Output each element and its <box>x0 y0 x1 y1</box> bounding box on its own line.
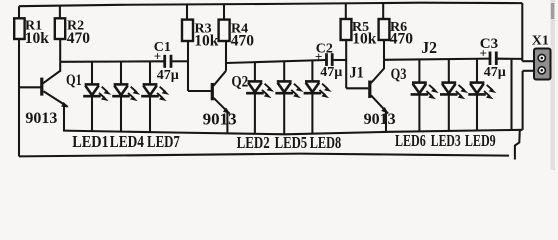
svg-text:LED9: LED9 <box>465 132 496 150</box>
svg-text:10k: 10k <box>25 30 50 47</box>
svg-text:Q3: Q3 <box>391 66 407 84</box>
svg-text:J1: J1 <box>349 65 363 82</box>
svg-text:470: 470 <box>231 32 255 49</box>
svg-text:Q1: Q1 <box>66 72 82 90</box>
svg-text:9013: 9013 <box>203 109 237 128</box>
svg-text:9013: 9013 <box>25 110 57 127</box>
svg-text:LED8: LED8 <box>310 134 341 152</box>
svg-text:470: 470 <box>390 30 414 47</box>
svg-text:LED4: LED4 <box>110 132 144 151</box>
svg-text:10k: 10k <box>352 30 377 47</box>
svg-text:9013: 9013 <box>364 111 396 128</box>
svg-text:LED1: LED1 <box>72 133 109 151</box>
svg-text:47µ: 47µ <box>157 68 179 83</box>
svg-text:47µ: 47µ <box>484 65 506 80</box>
svg-text:X1: X1 <box>532 33 549 48</box>
svg-text:Q2: Q2 <box>231 73 248 90</box>
svg-text:47µ: 47µ <box>320 65 342 80</box>
svg-text:10k: 10k <box>194 32 219 49</box>
svg-text:LED6: LED6 <box>395 132 426 150</box>
svg-text:+: + <box>154 48 161 63</box>
svg-text:LED5: LED5 <box>275 135 308 153</box>
svg-text:LED2: LED2 <box>237 135 270 153</box>
svg-text:470: 470 <box>67 30 91 47</box>
svg-text:LED3: LED3 <box>431 132 461 151</box>
svg-text:+: + <box>480 46 487 61</box>
svg-text:J2: J2 <box>421 38 437 58</box>
svg-text:LED7: LED7 <box>147 133 180 151</box>
svg-text:+: + <box>315 49 322 64</box>
